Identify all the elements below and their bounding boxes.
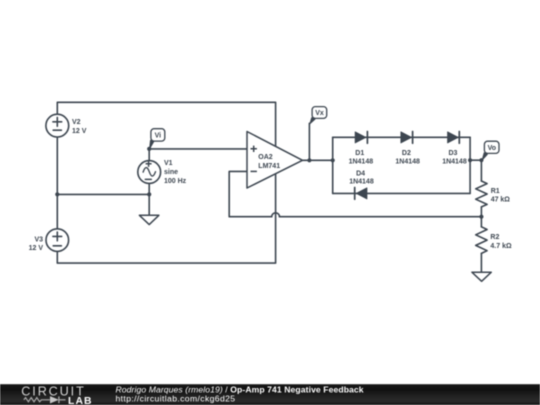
wire: V+ supply rail from V2 top to op-amp V+ pin [57,102,275,146]
wire: V1 top stub and non-inverting input wire (node Vi) [149,149,247,161]
diode D4 labels [349,170,374,185]
wire: R2 bottom stub to ground [480,253,482,272]
voltage source V1 (sine) symbol [138,161,161,184]
junction dot at node Vi [147,147,151,151]
svg-text:4.7 kΩ: 4.7 kΩ [490,243,512,250]
ground symbol under R2 (net 0) [472,272,491,281]
wire: mid horizontal between V2/V3 column and V1/ground column [57,193,149,195]
svg-text:D3: D3 [449,150,458,157]
wire: V1 bottom stub to mid junction [148,183,150,194]
op-amp non-inverting input marker [251,146,257,152]
svg-text:V2: V2 [72,119,81,126]
wire: diode network top conductor (through D1,D2,D3) [333,136,470,138]
diode D2 labels [395,150,420,165]
voltage source V3 labels [29,237,44,253]
wire: diode network right column to Vo / R1 node [470,159,481,161]
junction dot at R1/R2 feedback junction [479,215,483,219]
svg-text:Vo: Vo [488,145,496,152]
resistor R2 zigzag body [476,227,487,254]
resistor R1 zigzag body [476,181,487,207]
svg-text:100 Hz: 100 Hz [164,178,187,185]
voltage source V2 labels [72,119,87,135]
voltage source V2 symbol [46,114,69,137]
wire: V2 bottom to mid junction down to V3 top [56,136,58,229]
diode D2 [401,132,413,144]
junction dot at diode network left entry [331,158,335,162]
wire: Vx flag down-wire to output node [308,123,310,160]
svg-text:LAB: LAB [68,396,93,405]
svg-text:1N4148: 1N4148 [395,158,420,165]
wire: R1 top stub [480,160,482,181]
voltage source V3 symbol [46,229,69,252]
junction dot at node Vo / R1 top [479,158,483,162]
junction dot at node Vx on output wire [307,158,311,162]
junction dot at diode network right exit [468,158,472,162]
svg-text:sine: sine [164,169,178,176]
wire: feedback from inverting input down and right (left part before hop) [229,171,272,216]
svg-text:V1: V1 [164,160,173,167]
wire: V- supply rail from V3 bottom to op-amp V- pin [57,174,275,263]
wire: diode network left column [332,137,334,193]
svg-text:1N4148: 1N4148 [349,178,374,185]
resistor R1 labels [491,188,511,204]
svg-text:V3: V3 [34,237,43,244]
node flag Vi [150,129,165,149]
svg-text:R2: R2 [490,234,499,241]
svg-text:OA2: OA2 [258,154,273,161]
wire: R1 bottom stub to feedback junction [480,207,482,217]
svg-text:D2: D2 [402,150,411,157]
voltage source V1 labels [164,160,187,185]
junction dot at V2/V3 mid rail [55,192,59,196]
diode D1 [355,132,367,144]
footer logo resistor/diode glyph [24,396,66,403]
svg-text:Vi: Vi [155,133,162,140]
junction dot at V1 bottom / ground [147,192,151,196]
wire: feedback right part from hop to R1/R2 junction [280,216,482,218]
diode D1 labels [349,150,374,165]
node flag Vx [310,107,327,124]
ground symbol under V1 (net 0) [139,215,159,224]
diode D4 (reversed, on bottom conductor) [355,188,367,200]
svg-text:1N4148: 1N4148 [442,158,467,165]
svg-text:LM741: LM741 [258,163,280,170]
op-amp OA2 labels [258,154,280,170]
op-amp OA2 LM741 [247,132,303,189]
svg-text:R1: R1 [491,188,500,195]
footer bar [0,384,540,405]
svg-text:12 V: 12 V [29,245,44,252]
svg-text:12 V: 12 V [72,128,87,135]
wire: ground stub below mid junction [148,194,150,215]
svg-text:D4: D4 [356,170,365,177]
svg-text:D1: D1 [355,150,364,157]
svg-text:Vx: Vx [315,110,324,117]
svg-text:http://circuitlab.com/ckg6d25: http://circuitlab.com/ckg6d25 [116,393,236,403]
wire: op-amp output to diode network left column [303,159,333,161]
wire: diode network bottom conductor (through D4) [333,192,470,194]
wire: diode network right column [469,137,471,193]
svg-text:1N4148: 1N4148 [349,158,374,165]
diode D3 [448,132,460,144]
resistor R2 labels [490,234,512,250]
op-amp inverting input marker [251,170,257,172]
wire: R2 top stub [480,217,482,227]
wire: hop arc over V- rail [272,213,280,217]
diode D3 labels [442,150,467,165]
node flag Vo [482,141,499,160]
svg-text:47 kΩ: 47 kΩ [491,197,511,204]
